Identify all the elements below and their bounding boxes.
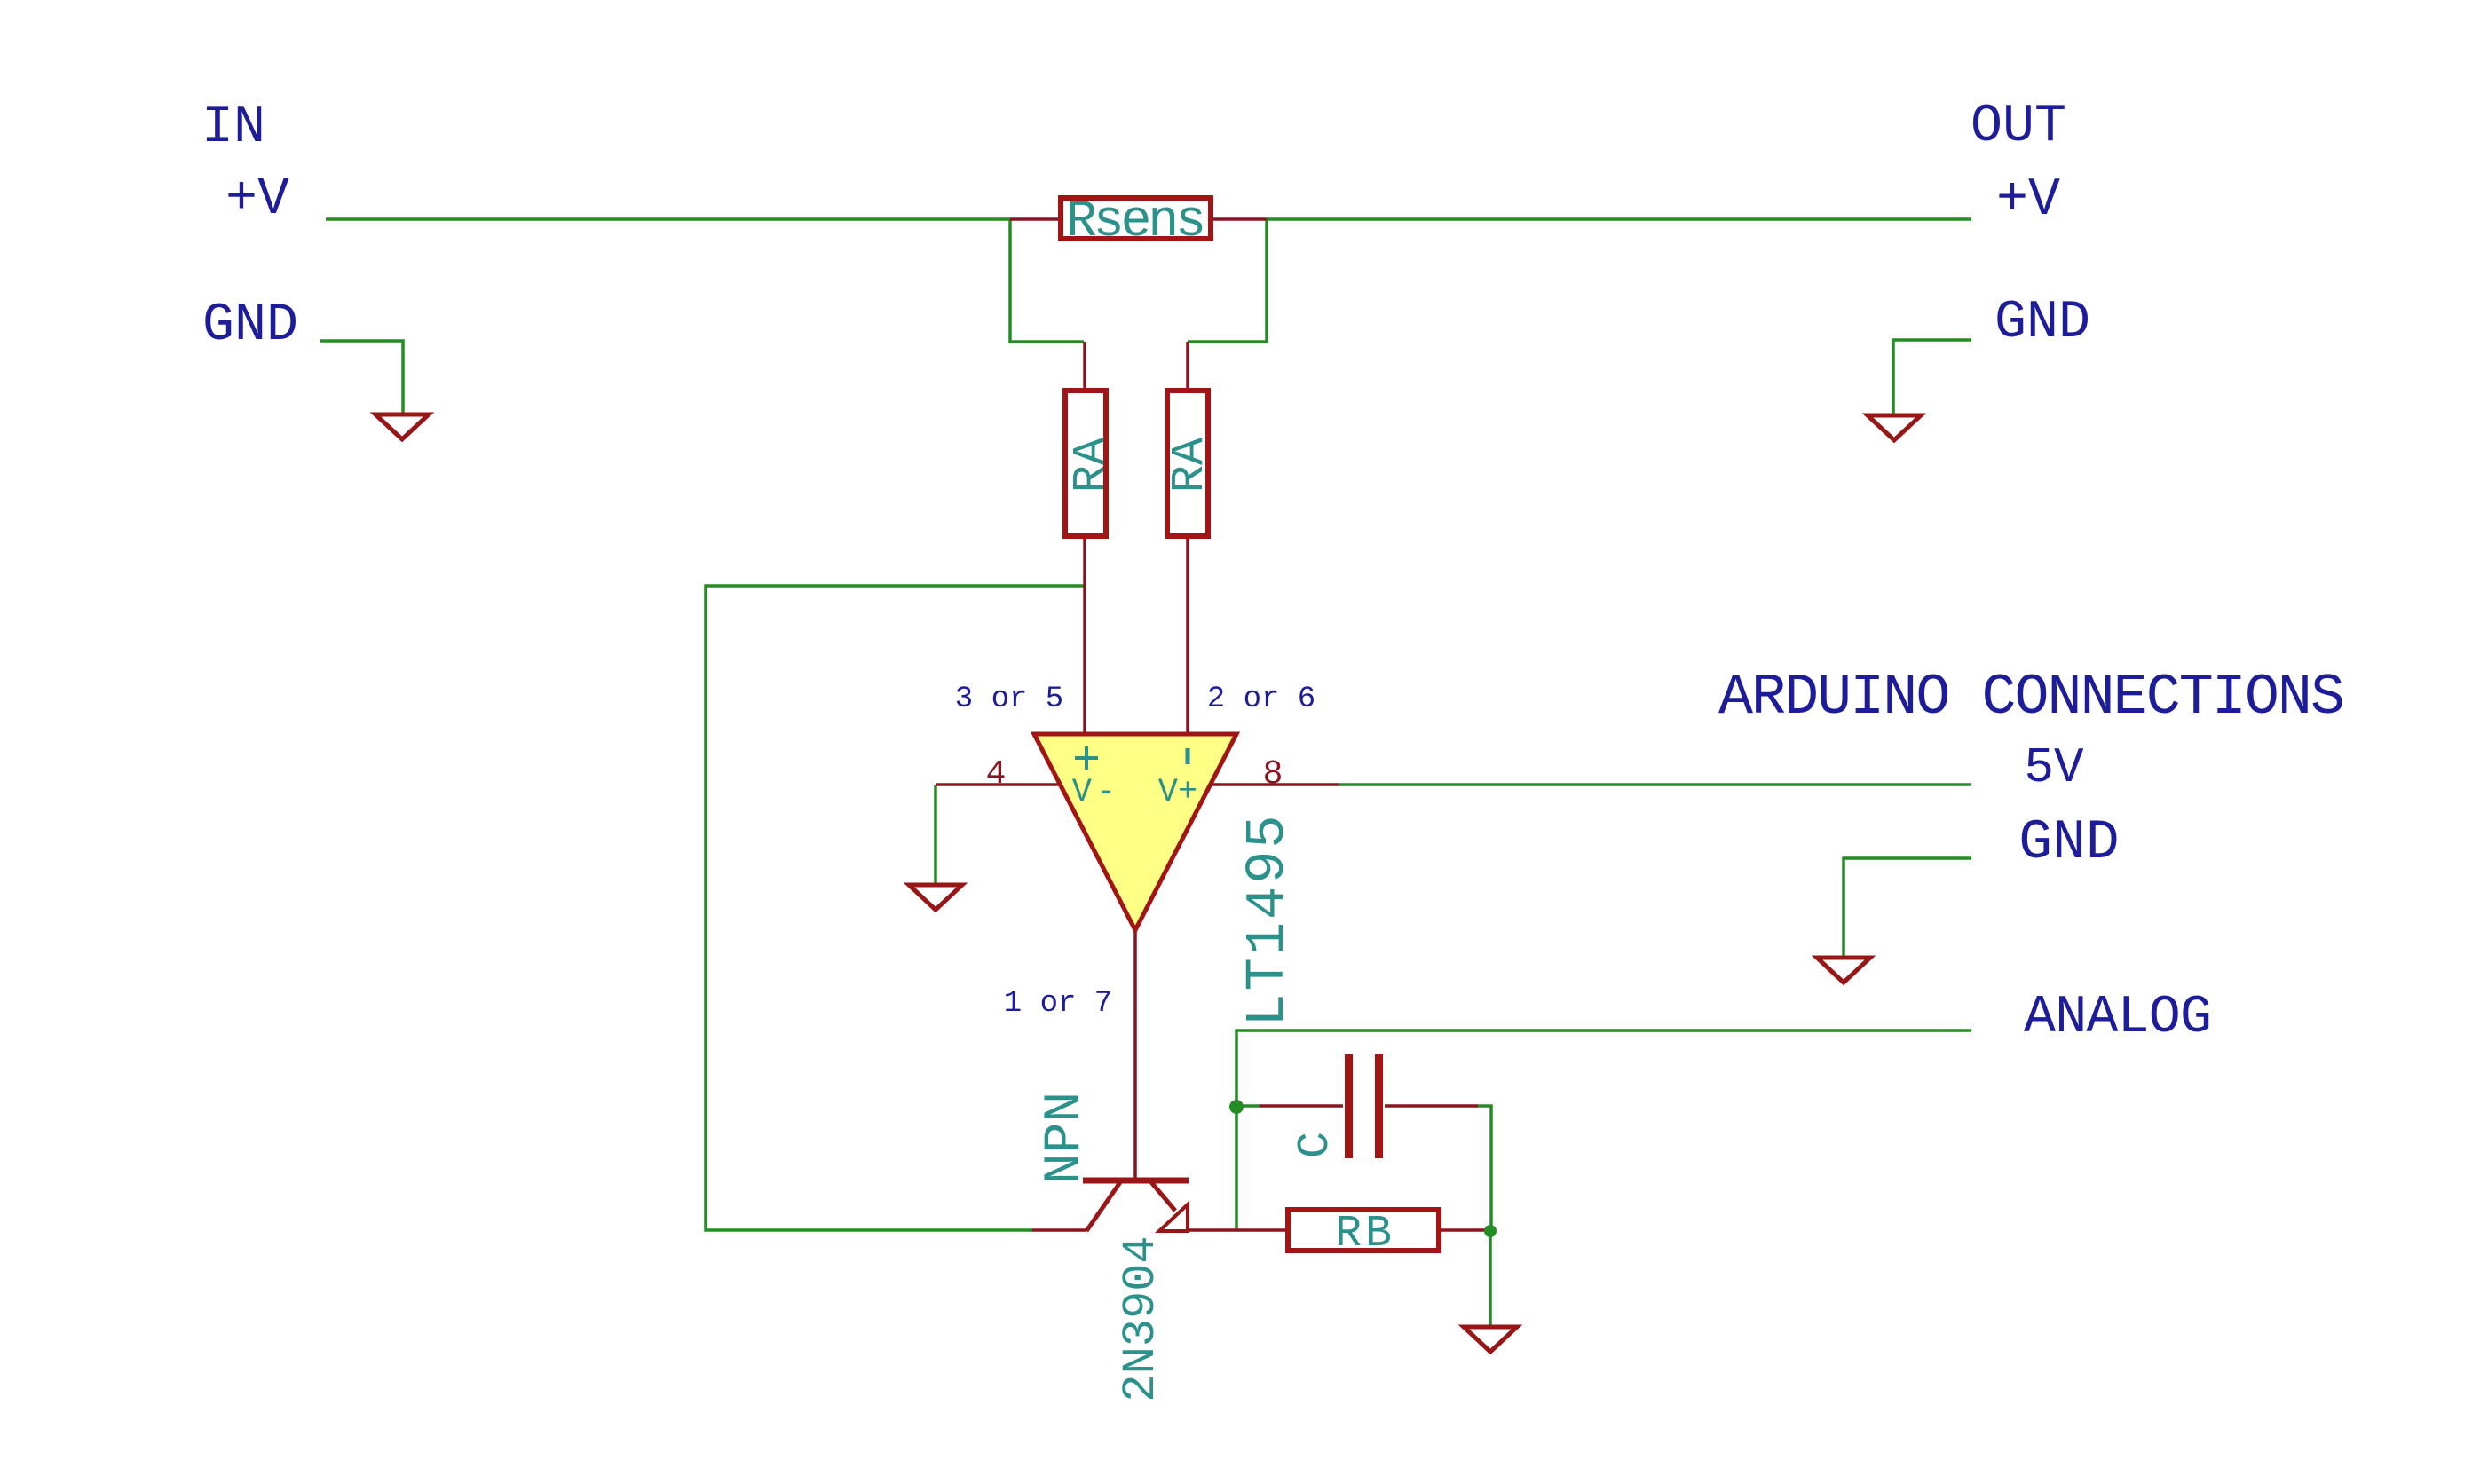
svg-text:IN: IN [201, 98, 265, 158]
svg-text:2N3904: 2N3904 [1115, 1235, 1167, 1401]
svg-text:C: C [1291, 1132, 1341, 1158]
svg-text:8: 8 [1263, 755, 1283, 793]
svg-text:4: 4 [986, 755, 1007, 793]
svg-text:V+: V+ [1158, 774, 1197, 811]
svg-text:RA: RA [1164, 437, 1216, 493]
svg-text:ARDUINO CONNECTIONS: ARDUINO CONNECTIONS [1718, 665, 2345, 730]
svg-text:OUT: OUT [1971, 97, 2066, 157]
svg-text:NPN: NPN [1037, 1092, 1094, 1184]
svg-text:GND: GND [202, 296, 298, 356]
svg-text:1 or 7: 1 or 7 [1004, 987, 1112, 1021]
svg-text:+V: +V [1996, 170, 2060, 231]
svg-text:GND: GND [2018, 811, 2119, 874]
svg-text:+V: +V [225, 170, 289, 230]
svg-text:Rsens: Rsens [1066, 193, 1206, 251]
svg-text:GND: GND [1994, 293, 2090, 353]
svg-text:2 or 6: 2 or 6 [1207, 683, 1315, 716]
svg-text:LT1495: LT1495 [1236, 812, 1299, 1026]
svg-text:V-: V- [1072, 774, 1120, 811]
svg-text:5V: 5V [2024, 739, 2084, 796]
svg-text:3 or 5: 3 or 5 [955, 683, 1063, 716]
svg-text:ANALOG: ANALOG [2024, 988, 2212, 1048]
svg-text:RA: RA [1065, 437, 1118, 493]
